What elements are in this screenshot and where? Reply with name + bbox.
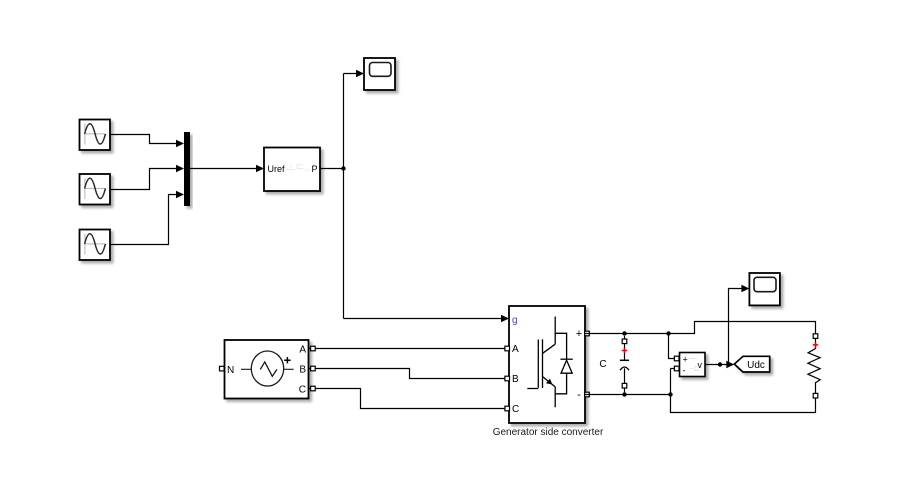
- svg-text:P: P: [311, 164, 317, 174]
- svg-text:A: A: [299, 345, 306, 356]
- svg-text:C: C: [512, 404, 519, 415]
- svg-text:+: +: [683, 354, 688, 364]
- svg-text:-: -: [577, 389, 581, 401]
- svg-text:Udc: Udc: [747, 360, 765, 371]
- svg-text:-: -: [683, 365, 686, 375]
- svg-text:N: N: [227, 365, 234, 376]
- svg-text:+: +: [576, 328, 582, 340]
- svg-text:B: B: [512, 374, 519, 385]
- svg-text:A: A: [512, 344, 519, 355]
- svg-text:g: g: [512, 315, 518, 326]
- svg-text:C: C: [599, 359, 606, 370]
- svg-text:Uref: Uref: [268, 164, 286, 174]
- svg-text:B: B: [299, 365, 306, 376]
- svg-text:Generator side converter: Generator side converter: [493, 427, 604, 438]
- svg-text:C: C: [299, 385, 306, 396]
